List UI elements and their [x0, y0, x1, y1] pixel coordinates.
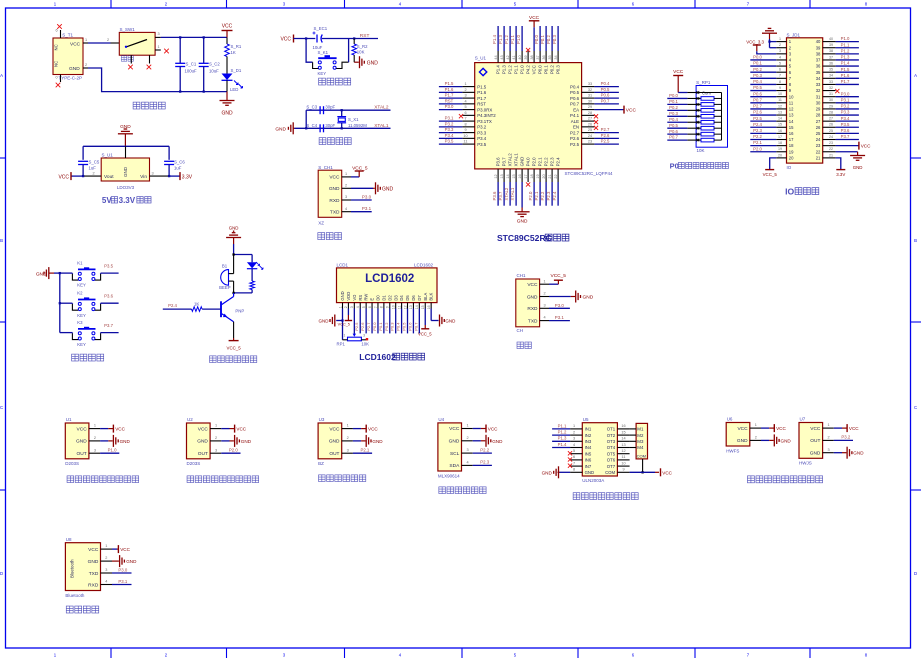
MCU bottom pin 13 P3.7 [503, 169, 505, 182]
svg-text:2: 2 [85, 63, 87, 67]
driver U5 ULN2003A body [582, 417, 617, 483]
svg-text:TXD: TXD [89, 571, 99, 577]
U6 pin 2 GND [750, 439, 761, 441]
svg-text:13: 13 [789, 113, 794, 118]
ground (serial) [575, 291, 577, 303]
no-connect X U5 pin 6 [568, 457, 572, 461]
MCU bottom pin 16 GND [521, 169, 523, 182]
svg-text:6: 6 [368, 306, 372, 308]
U5 left pin 6 IN6 [570, 459, 582, 461]
wire+net label P0.0 (JD1 left) [750, 59, 776, 61]
svg-text:3: 3 [345, 195, 347, 199]
MCU left pin 1 P1.5 [462, 86, 474, 88]
svg-text:3: 3 [94, 448, 96, 452]
resistor (alarm LED) [250, 281, 255, 290]
svg-text:38: 38 [829, 49, 833, 53]
LCD pin 8 D1 [383, 303, 385, 309]
svg-text:P1.4: P1.4 [841, 61, 850, 66]
MCU top pin 34 P0.3 [557, 51, 559, 63]
wire U3.GND to GND [353, 440, 361, 442]
svg-text:P3.3: P3.3 [445, 127, 454, 132]
svg-text:RXD: RXD [88, 582, 99, 588]
no-connect X U5 pin 5 [568, 451, 572, 455]
capacitor S_C2 10uF [199, 37, 221, 91]
svg-text:OUT: OUT [198, 451, 208, 457]
svg-text:D0: D0 [376, 295, 381, 301]
svg-text:LCD1: LCD1 [337, 262, 349, 267]
power port VCC_5 (JD1 bottom) [765, 169, 774, 171]
junction JD1 pin1 [768, 40, 770, 42]
header S_JD1 IO body [787, 38, 823, 163]
svg-text:24: 24 [588, 134, 592, 138]
no-connect X on switch bottom A [128, 65, 133, 70]
svg-text:VCC: VCC [532, 65, 537, 74]
wire+net label P1.5 (JD1 right) [836, 71, 859, 73]
svg-text:D5: D5 [405, 295, 410, 301]
U5 left pin 8 GND [570, 471, 582, 473]
U5 right pin 13 OT4 [617, 447, 629, 449]
JD1 right pin 34 [823, 77, 836, 79]
svg-text:14: 14 [621, 437, 625, 441]
svg-text:GND: GND [76, 439, 87, 445]
svg-text:1: 1 [755, 423, 757, 427]
svg-text:VCC: VCC [329, 426, 340, 432]
svg-text:3: 3 [350, 306, 354, 308]
ground (LCD right) [439, 315, 441, 327]
svg-text:P0.3: P0.3 [390, 322, 395, 331]
svg-text:36: 36 [542, 55, 546, 59]
svg-text:1uF: 1uF [174, 166, 182, 171]
svg-text:4: 4 [105, 580, 107, 584]
potentiometer RP1 10K [337, 334, 370, 347]
svg-text:1: 1 [105, 544, 107, 548]
header S_CH1 XZ [318, 165, 342, 226]
MCU left pin 9 P3.3 [462, 132, 474, 134]
svg-text:VCC: VCC [115, 427, 125, 432]
svg-text:P0.0: P0.0 [372, 322, 377, 331]
wire+net label P0.0 (LCD) [377, 309, 379, 334]
svg-text:COM: COM [637, 454, 646, 459]
svg-text:P3.5: P3.5 [104, 264, 113, 269]
svg-text:D203S: D203S [65, 461, 79, 466]
svg-text:RST: RST [360, 33, 370, 39]
svg-text:12: 12 [621, 449, 625, 453]
svg-text:23: 23 [588, 140, 592, 144]
ground (U7) [846, 447, 848, 459]
svg-text:VCC: VCC [527, 282, 538, 288]
svg-text:41: 41 [512, 55, 516, 59]
LCD pin 5 RW [365, 303, 367, 309]
svg-text:S_X1: S_X1 [348, 117, 359, 122]
svg-text:GND: GND [810, 450, 821, 456]
svg-text:4: 4 [345, 207, 347, 211]
wire+net label P0.2 (MCU top) [551, 26, 553, 51]
JD1 right pin 25 [823, 132, 836, 134]
svg-text:3: 3 [363, 334, 365, 338]
svg-text:1: 1 [338, 306, 342, 308]
svg-text:30pF: 30pF [325, 123, 335, 128]
svg-text:29: 29 [829, 104, 833, 108]
junction COM [641, 471, 643, 473]
svg-text:2: 2 [107, 38, 109, 42]
svg-text:VO: VO [352, 294, 357, 301]
svg-text:P1.5: P1.5 [477, 84, 487, 89]
svg-text:21: 21 [548, 174, 552, 178]
svg-text:P2.7: P2.7 [601, 127, 610, 132]
svg-text:34: 34 [554, 55, 558, 59]
JD1 right pin 28 [823, 114, 836, 116]
wire U3.VCC to VCC [353, 428, 361, 430]
wire+net label XTAL2 (MCU bottom) [509, 182, 511, 206]
wire pin23 to VCC [836, 145, 859, 147]
svg-text:S_R2: S_R2 [357, 44, 368, 49]
wire+net label P2.5 (MCU right) [594, 143, 619, 145]
junction alarm top node [232, 253, 234, 255]
svg-text:P1.1: P1.1 [514, 65, 519, 75]
svg-text:VCC: VCC [776, 426, 786, 431]
svg-text:S_SW1: S_SW1 [120, 27, 136, 32]
svg-text:VCC_5: VCC_5 [763, 172, 778, 177]
svg-text:24: 24 [829, 135, 833, 139]
svg-text:BEEP: BEEP [219, 285, 231, 290]
JD1 right pin 38 [823, 53, 836, 55]
ground (LCD left) [334, 315, 336, 327]
svg-text:7: 7 [374, 306, 378, 308]
svg-text:P3.4: P3.4 [477, 136, 487, 141]
wire+net label P0.4 (JD1 left) [750, 83, 776, 85]
wire+net label P2.2 (U4) [473, 452, 492, 454]
svg-text:P1.3: P1.3 [558, 436, 567, 441]
svg-text:P0.5: P0.5 [669, 123, 678, 128]
svg-text:P3.5: P3.5 [841, 122, 850, 127]
svg-text:VCC: VCC [77, 426, 88, 432]
no-connect X on S_T1 top pin [57, 24, 62, 29]
svg-text:3.3V: 3.3V [836, 172, 845, 177]
buzzer B1 BEEP [219, 255, 234, 293]
svg-text:P3.0: P3.0 [555, 303, 565, 308]
svg-text:1: 1 [543, 279, 545, 283]
svg-text:25: 25 [829, 129, 833, 133]
svg-text:M4: M4 [637, 445, 644, 450]
svg-text:P1.2: P1.2 [508, 65, 513, 75]
svg-text:P2.7: P2.7 [366, 322, 371, 331]
svg-text:15: 15 [512, 174, 516, 178]
junction bottom rail at C2 [203, 90, 205, 92]
wire pin20 to VCC_5 [770, 158, 777, 170]
wire+net label P2.5 (LCD) [359, 309, 361, 334]
svg-text:A: A [0, 73, 3, 78]
svg-text:GND: GND [583, 295, 594, 301]
svg-text:S_U1: S_U1 [102, 153, 114, 158]
U1 pin 1 VCC [89, 428, 100, 430]
U8 pin4 stub [101, 584, 113, 586]
U6 pin 1 VCC [750, 427, 761, 429]
svg-text:VCC_5: VCC_5 [338, 322, 350, 326]
svg-text:IO: IO [785, 187, 794, 197]
svg-text:2: 2 [464, 88, 466, 92]
svg-text:GND: GND [197, 439, 208, 445]
svg-text:VCC: VCC [120, 547, 130, 552]
power port VCC_5 (alarm) [229, 340, 239, 342]
svg-text:P0.2: P0.2 [384, 322, 389, 331]
svg-text:NC: NC [54, 61, 59, 67]
svg-text:38: 38 [816, 51, 821, 56]
svg-text:P2.0: P2.0 [532, 157, 537, 167]
junction LCD gnd [341, 319, 343, 321]
svg-text:35: 35 [816, 70, 821, 75]
svg-text:E: E [370, 298, 375, 301]
svg-text:P0.4: P0.4 [601, 81, 610, 86]
wire+net label P2.0 (MCU bottom) [533, 182, 535, 206]
wire+net label P1.5 (MCU left) [439, 86, 463, 88]
wire OT3 to M3 [630, 440, 637, 442]
svg-text:P0.0: P0.0 [534, 35, 539, 44]
title 按键电路 [72, 354, 79, 361]
RP1 resistor 4 [687, 115, 701, 117]
svg-text:U6: U6 [727, 417, 733, 422]
no-connect X MCU right pin 28 [594, 114, 598, 118]
svg-text:XTAL1: XTAL1 [510, 187, 515, 200]
wire+net label P1.3 (U5) [552, 440, 570, 442]
junction C5-pin2 [82, 175, 84, 177]
JD1 left pin 2 [776, 47, 786, 49]
svg-text:P0.5: P0.5 [570, 90, 580, 95]
svg-text:K2: K2 [77, 291, 83, 296]
ground (U6) [773, 434, 775, 446]
svg-text:P2.0: P2.0 [528, 191, 533, 200]
svg-text:GND: GND [449, 439, 460, 445]
svg-text:OT3: OT3 [607, 439, 616, 444]
svg-text:P0.6: P0.6 [753, 91, 762, 96]
wire+net label P2.0 (U2) [221, 452, 240, 454]
wire+net label P3.0 (JD1 right) [836, 96, 859, 98]
wire U6.VCC to VCC [761, 427, 769, 429]
JD1 left pin 16 [776, 132, 786, 134]
svg-text:9: 9 [622, 468, 624, 472]
svg-text:14: 14 [415, 305, 419, 309]
power port 3.3V (JD1) [836, 169, 845, 171]
svg-text:P0.3: P0.3 [669, 111, 678, 116]
wire+net label P0.3 (LCD) [395, 309, 397, 334]
svg-text:35: 35 [548, 55, 552, 59]
MCU left pin 7 P3.1TX [462, 120, 474, 122]
S_CH1 pin4 stub [342, 211, 351, 213]
pin 1 stub of S_SW1 [155, 49, 161, 51]
wire pin2 to GND (serial) [549, 296, 571, 298]
wire+net label P0.5 (LCD) [407, 309, 409, 334]
JD1 right pin 36 [823, 65, 836, 67]
no-connect X MCU top pin [526, 48, 530, 52]
svg-text:P0.1: P0.1 [753, 61, 762, 66]
S_CH1 pin1 stub [342, 176, 351, 178]
svg-text:GND: GND [445, 319, 456, 324]
MCU U1 STC89C52RC body [475, 56, 613, 176]
svg-text:16: 16 [427, 305, 431, 309]
wire U8 GND [112, 560, 119, 562]
svg-text:XTAL2: XTAL2 [508, 153, 513, 167]
ground (JD1 top) [762, 32, 777, 34]
svg-text:P3.0: P3.0 [445, 104, 454, 109]
svg-text:P1.4: P1.4 [558, 442, 567, 447]
svg-text:GND: GND [382, 186, 394, 192]
wire+net label P1.2 (JD1 right) [836, 53, 859, 55]
svg-text:34: 34 [829, 74, 833, 78]
U3 pin 3 OUT [342, 452, 353, 454]
svg-text:27: 27 [829, 117, 833, 121]
wire U2.VCC to VCC [221, 428, 229, 430]
svg-text:P2.4: P2.4 [168, 303, 177, 308]
svg-text:13: 13 [500, 174, 504, 178]
svg-text:B: B [0, 238, 3, 243]
JD1 left pin 7 [776, 77, 786, 79]
svg-text:S_T1: S_T1 [62, 32, 73, 37]
svg-text:P2.1: P2.1 [753, 140, 762, 145]
svg-text:RXD: RXD [329, 198, 340, 204]
svg-text:VCC: VCC [737, 426, 748, 432]
svg-text:NC: NC [54, 44, 59, 50]
power port VCC (MCU top) [529, 20, 540, 22]
svg-text:P3.6: P3.6 [492, 191, 497, 200]
svg-text:XTAL2: XTAL2 [504, 187, 509, 200]
svg-text:P0.2: P0.2 [669, 105, 678, 110]
module U4 MLX90614 body [438, 417, 462, 478]
wire+net label P0.2 (LCD) [389, 309, 391, 334]
svg-text:25: 25 [588, 128, 592, 132]
svg-text:26: 26 [588, 122, 592, 126]
svg-text:P2.0: P2.0 [229, 448, 238, 453]
svg-text:P1.4: P1.4 [492, 35, 497, 44]
svg-text:P3.7: P3.7 [104, 323, 113, 328]
svg-text:A: A [914, 73, 917, 78]
wire+net label P0.3 (RP1) [667, 115, 687, 117]
JD1 right pin 31 [823, 96, 836, 98]
wire+net label P3.0 (MCU left) [439, 109, 463, 111]
junction bottom rail at C1 [179, 90, 181, 92]
svg-text:1: 1 [94, 424, 96, 428]
wire+net label P3.7 (JD1 right) [836, 139, 859, 141]
resistor S_R1 1K [225, 37, 242, 73]
no-connect X on switch bottom B [147, 65, 152, 70]
svg-text:18: 18 [778, 141, 782, 145]
MCU top pin 43 P1.3 [503, 51, 505, 63]
svg-text:OT1: OT1 [607, 427, 616, 432]
wire+net label P0.4 (RP1) [667, 121, 687, 123]
JD1 left pin 11 [776, 102, 786, 104]
ground (U1) [112, 435, 114, 447]
svg-text:OT5: OT5 [607, 451, 616, 456]
wire+net label P1.1 (MCU top) [515, 26, 517, 51]
svg-text:XTAL2: XTAL2 [374, 105, 389, 111]
svg-text:P0.3: P0.3 [552, 35, 557, 44]
svg-text:GND: GND [229, 226, 239, 231]
svg-text:3: 3 [215, 448, 217, 452]
svg-text:GND: GND [520, 157, 525, 167]
U3 pin 2 GND [342, 440, 353, 442]
wire+net label P0.0 (RP1) [667, 97, 687, 99]
wire key right up [348, 39, 350, 63]
svg-text:P3.6: P3.6 [104, 294, 113, 299]
RP1 resistor 3 [687, 109, 701, 111]
wire+net label P0.4 (LCD) [401, 309, 403, 334]
svg-text:15: 15 [778, 123, 782, 127]
junction alarm node [232, 292, 234, 294]
svg-text:30: 30 [588, 99, 592, 103]
svg-text:RST: RST [445, 98, 454, 103]
ground symbol power circuit [226, 92, 228, 101]
svg-text:2: 2 [92, 171, 94, 175]
svg-text:2: 2 [105, 556, 107, 560]
svg-text:1: 1 [215, 424, 217, 428]
svg-text:5: 5 [464, 105, 466, 109]
wire+net label P0.6 (MCU right) [594, 97, 619, 99]
LCD pin 6 E [371, 303, 373, 309]
svg-text:37: 37 [829, 55, 833, 59]
wire+net label P1.2 (MCU top) [509, 26, 511, 51]
svg-text:MLX90614: MLX90614 [438, 473, 460, 478]
JD1 right pin 33 [823, 83, 836, 85]
svg-text:S_CH1: S_CH1 [318, 165, 333, 170]
svg-text:P2.4: P2.4 [556, 157, 561, 167]
no-connect X MCU left pin 6 [459, 114, 463, 118]
svg-text:GND: GND [319, 319, 330, 324]
pin 6 top stub of S_T1 [60, 30, 62, 38]
svg-text:6: 6 [55, 29, 57, 33]
svg-text:P3.2: P3.2 [477, 125, 487, 130]
wire+net label P2.7 (LCD) [371, 309, 373, 334]
svg-text:1: 1 [828, 423, 830, 427]
wire right branch down [168, 146, 170, 160]
svg-text:P2.5: P2.5 [570, 142, 580, 147]
svg-text:BZ: BZ [318, 461, 324, 466]
pin 0 bottom stub of S_T1 [60, 75, 62, 83]
svg-text:P1.3: P1.3 [502, 65, 507, 75]
S_SW1 bottom stub A [130, 55, 132, 63]
svg-text:27: 27 [588, 117, 592, 121]
svg-text:XTAL1: XTAL1 [514, 153, 519, 167]
svg-text:P0.6: P0.6 [570, 96, 580, 101]
svg-text:P3.3: P3.3 [841, 110, 850, 115]
svg-text:GND: GND [517, 219, 528, 225]
wire OT4 to M4 [630, 447, 637, 449]
MCU left pin 3 P1.7 [462, 97, 474, 99]
svg-text:3: 3 [779, 49, 781, 53]
svg-text:5V: 5V [102, 196, 112, 205]
wire+net label P1.4 (U5) [552, 447, 570, 449]
MCU top pin 35 P0.2 [551, 51, 553, 63]
svg-text:1K: 1K [231, 50, 236, 55]
svg-text:P3.1: P3.1 [841, 97, 850, 102]
svg-text:P2.5: P2.5 [753, 116, 762, 121]
svg-text:S_C2: S_C2 [209, 62, 220, 67]
MCU bottom pin 19 P2.1 [539, 169, 541, 182]
svg-text:P3.1: P3.1 [555, 315, 565, 320]
S_CH1 pin3 stub [342, 199, 351, 201]
wire+net label P0.5 (RP1) [667, 127, 687, 129]
svg-text:S_C5: S_C5 [89, 160, 100, 165]
junction trunk K1 [59, 272, 61, 274]
U5 right pin 10 OT7 [617, 465, 629, 467]
JD1 left pin 4 [776, 59, 786, 61]
wire+net label P2.6 (JD1 left) [750, 114, 776, 116]
svg-text:S_EC1: S_EC1 [314, 26, 328, 31]
MCU top pin 38 VCC [533, 51, 535, 63]
wire+net label P0.1 (MCU top) [545, 26, 547, 51]
svg-text:P1.1: P1.1 [841, 42, 850, 47]
wire+net label P1.6 (JD1 right) [836, 77, 859, 79]
svg-text:Bluetooth: Bluetooth [70, 559, 75, 578]
header CH1 serial [516, 273, 540, 333]
U4 pin 1 VCC [462, 428, 473, 430]
